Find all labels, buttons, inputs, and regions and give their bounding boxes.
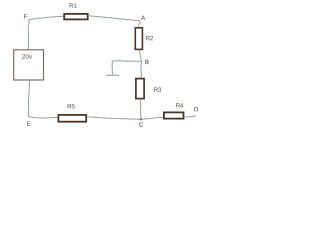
wire: R3 bottom to node C — [140, 100, 141, 120]
wire: node B to ground — [112, 61, 142, 75]
node F label — [24, 14, 27, 18]
wire: node E to R5 left — [29, 117, 58, 118]
junction dot at node C — [140, 118, 142, 120]
wire: node A down to R2 top — [139, 21, 140, 27]
node B label — [145, 60, 148, 64]
label R1 — [70, 3, 77, 7]
voltage source 20v — [14, 50, 44, 80]
node C label — [139, 122, 143, 126]
wire: R2 bottom to node B to R3 top — [140, 50, 142, 77]
label R5 — [68, 104, 75, 108]
node D label — [194, 107, 198, 111]
wire: source top to node F corner — [28, 20, 29, 50]
wire: R5 right through node C to R4 left — [87, 117, 162, 120]
ground — [107, 74, 119, 76]
wire: source bottom to node E corner — [28, 81, 29, 117]
resistor R3 — [136, 79, 144, 99]
wire: R4 right to node D — [185, 116, 197, 117]
resistor R2 — [135, 28, 142, 50]
wire: node F to R1 left — [29, 16, 64, 20]
label 20v — [22, 54, 32, 58]
label R2 — [146, 36, 153, 40]
resistor R5 — [58, 115, 86, 122]
resistor R4 — [164, 112, 184, 118]
node A label — [141, 16, 145, 20]
node E label — [27, 122, 30, 126]
label R4 — [176, 103, 183, 107]
label R3 — [154, 87, 161, 91]
wire: R1 right to node A corner — [88, 16, 139, 21]
resistor R1 — [64, 14, 88, 20]
